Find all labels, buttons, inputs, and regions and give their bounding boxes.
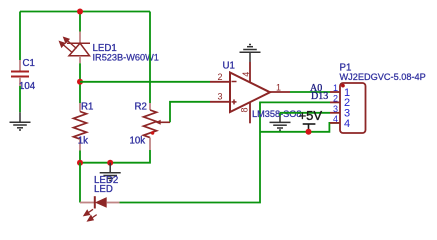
wire R2 branch vertical: [149, 12, 151, 104]
svg-text:4: 4: [241, 72, 251, 77]
ground on rail: [100, 163, 121, 181]
svg-text:LM358-SO8: LM358-SO8: [252, 109, 302, 119]
+5V bar and stem: [303, 123, 316, 125]
LED1 top pin: [79, 32, 81, 44]
R2 pin marker dot: [151, 131, 154, 134]
node junction LED1/R1/op-amp IN-: [77, 79, 83, 85]
wire LED1 branch top: [79, 12, 81, 32]
wire op-amp IN+ to R2 wiper: [170, 102, 210, 123]
potentiometer R2: [130, 102, 211, 151]
R2 zigzag body: [144, 110, 157, 138]
U1 triangle body: [230, 73, 270, 113]
wire op-amp out to P1 pin1: [290, 91, 330, 93]
R1 bottom pin: [79, 139, 81, 150]
LED1 cathode bar: [67, 42, 90, 44]
wire R2 bottom to rail: [80, 150, 150, 163]
wire R1 to gnd rail: [79, 151, 81, 163]
svg-text:8: 8: [239, 107, 249, 112]
svg-text:1: 1: [276, 83, 281, 93]
node R1/rail junction: [77, 160, 83, 166]
R1 zigzag body: [74, 112, 87, 140]
LED1 triangle: [69, 43, 90, 56]
R2 top pin: [149, 103, 151, 110]
LED2 emit arrows: [84, 209, 97, 221]
svg-text:R2: R2: [135, 102, 147, 113]
LED2 left pin: [80, 202, 95, 204]
U1 pin 8 stub: [249, 103, 251, 124]
R2 wiper arrow: [160, 121, 171, 123]
op-amp U1: [210, 61, 302, 124]
svg-text:4: 4: [344, 118, 350, 130]
R1 top pin: [79, 103, 81, 112]
P1 pin stubs 1-4: [330, 91, 340, 93]
C1 top pin: [19, 60, 21, 71]
ground above op-amp pin4: [240, 45, 261, 63]
wire C1 to ground: [19, 86, 21, 112]
svg-text:IR523B-W60W1: IR523B-W60W1: [93, 53, 159, 63]
LED2 triangle: [95, 197, 107, 208]
svg-text:LED: LED: [94, 184, 113, 195]
U1 pin 3 stub: [210, 101, 230, 103]
U1 pin 4 stub: [249, 62, 251, 82]
wire op-amp IN- (pin2): [80, 81, 210, 83]
svg-text:WJ2EDGVC-5.08-4P: WJ2EDGVC-5.08-4P: [340, 72, 426, 82]
connector P1: [330, 63, 426, 134]
wire rail to LED2: [79, 163, 81, 203]
svg-text:3: 3: [333, 104, 338, 114]
U1 pin 1 output stub: [270, 91, 290, 93]
LED1 bottom pin: [79, 56, 81, 64]
LED LED2: [80, 175, 120, 221]
LED1 emit arrows: [60, 38, 77, 53]
svg-text:D13: D13: [311, 91, 328, 102]
P1 body rectangle: [340, 83, 366, 133]
svg-text:1: 1: [333, 83, 338, 93]
LED2 cathode bar: [94, 196, 96, 208]
U1 plus mark: [232, 101, 237, 103]
LED2 right pin: [107, 202, 120, 204]
R2 bottom pin: [149, 138, 151, 150]
U1 minus mark: [232, 81, 237, 83]
svg-text:2: 2: [218, 72, 223, 82]
svg-text:104: 104: [19, 81, 36, 92]
svg-text:U1: U1: [223, 61, 235, 72]
+5V power flag: [299, 108, 323, 132]
wire +5V rail to P1 pin4: [260, 123, 340, 132]
U1 pin 2 stub: [210, 81, 230, 83]
svg-text:10k: 10k: [130, 136, 146, 147]
svg-text:3: 3: [218, 92, 223, 102]
wire top rail: [20, 11, 150, 13]
svg-text:4: 4: [333, 114, 338, 124]
node gnd/rail junction: [107, 160, 113, 166]
node +5V junction: [306, 129, 312, 135]
wire LED1 to junction: [79, 63, 81, 103]
wire left vertical to C1: [19, 12, 21, 61]
svg-text:C1: C1: [23, 58, 35, 69]
junction top rail / LED1: [77, 9, 83, 15]
wire LED2 to D13 vertical: [120, 102, 331, 202]
ground under C1: [10, 112, 31, 130]
svg-text:R1: R1: [81, 102, 93, 113]
P1 pin-1 marker dot: [341, 84, 345, 88]
C1 bottom pin: [19, 77, 21, 86]
svg-text:1k: 1k: [78, 136, 88, 147]
photodiode LED1: [60, 32, 159, 64]
C1 plates: [11, 71, 29, 73]
svg-text:2: 2: [333, 93, 338, 103]
ground at P1 pin3: [270, 113, 291, 130]
resistor R1: [74, 102, 94, 151]
capacitor C1: [11, 58, 36, 92]
wire P1 pin3 to gnd: [280, 112, 330, 114]
svg-text:+5V: +5V: [299, 108, 323, 123]
